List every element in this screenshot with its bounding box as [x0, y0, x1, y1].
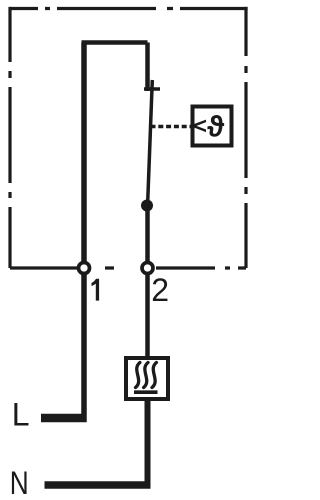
svg-text:<: < [193, 113, 207, 139]
wire terminal1 up [81, 43, 87, 269]
wire top horizontal [82, 40, 148, 45]
wire terminal2 down to heater [145, 268, 150, 356]
heater underline bar [134, 390, 158, 394]
wire dot to terminal2 [145, 205, 150, 268]
enclosure dash-dot border left [8, 7, 11, 268]
wire switch fixed contact down [145, 43, 150, 92]
enclosure dash-dot border bottom [10, 266, 246, 269]
L stub thick wire [41, 414, 87, 423]
terminal 2 circle [142, 263, 153, 274]
switch fixed contact tick [144, 87, 160, 91]
svg-text:ϑ: ϑ [207, 112, 224, 144]
heater squiggle 3 [152, 363, 156, 388]
svg-text:L: L [12, 397, 30, 433]
label terminal 1 [92, 279, 100, 301]
terminal 1 circle [79, 263, 90, 274]
junction dot node [141, 200, 153, 212]
dashed actuator link [151, 125, 191, 129]
svg-text:N: N [10, 466, 29, 500]
heater squiggle 1 [136, 363, 140, 388]
heater element E1 box [126, 358, 168, 399]
enclosure dash-dot border top [10, 7, 248, 10]
switch blade S1 [148, 80, 153, 205]
wire heater down to N [145, 399, 151, 489]
thermostat box B1 [193, 107, 232, 146]
svg-text:2: 2 [151, 272, 169, 308]
heater squiggle 2 [144, 363, 148, 388]
N thick wire [45, 481, 151, 489]
enclosure dash-dot border right [244, 7, 247, 268]
wire terminal1 down to L [81, 268, 87, 422]
